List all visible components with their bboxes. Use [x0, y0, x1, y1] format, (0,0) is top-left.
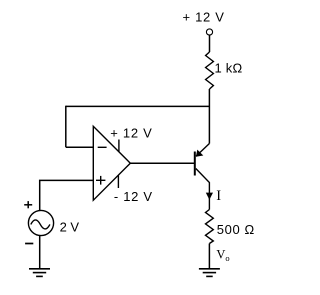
wire feedback left [65, 106, 67, 148]
minus sign of source [25, 243, 33, 245]
svg-text:Vo: Vo [216, 248, 229, 264]
pin +12V supply of op-amp [118, 140, 120, 153]
transistor Q1 collector lead [196, 169, 210, 210]
wire terminal to R1 [209, 35, 211, 52]
ground right [199, 269, 220, 277]
wire R2 to ground [208, 244, 210, 269]
transistor Q1 bar [194, 152, 196, 176]
op-amp U1 [93, 126, 130, 200]
minus input sign [98, 146, 107, 148]
transistor Q1 emitter lead [196, 144, 209, 157]
wire op-amp output to base [130, 162, 194, 164]
svg-text:2 V: 2 V [60, 220, 80, 235]
current arrow I [206, 193, 213, 200]
wire feedback to inverting input [66, 146, 94, 148]
wire source to non-inverting input [40, 180, 94, 210]
svg-text:+ 12 V: + 12 V [183, 10, 225, 25]
ground left [29, 269, 50, 277]
resistor R2 [206, 210, 214, 244]
wire source to ground [39, 236, 41, 269]
svg-text:+ 12 V: + 12 V [110, 126, 152, 141]
pin -12V supply of op-amp [117, 175, 119, 188]
wire R1 to collector bend [208, 89, 210, 144]
transistor Q1 emitter arrowhead [196, 150, 203, 157]
svg-text:500 Ω: 500 Ω [217, 222, 255, 237]
svg-text:I: I [216, 188, 221, 204]
source V1 circle [28, 210, 53, 235]
plus input sign [96, 176, 105, 185]
wire feedback top [66, 105, 210, 107]
svg-text:- 12 V: - 12 V [114, 189, 153, 204]
plus sign of source [24, 201, 32, 208]
source V1 sine wave [31, 220, 50, 229]
terminal +12V [206, 29, 212, 35]
resistor R1 [206, 52, 214, 89]
svg-text:1 kΩ: 1 kΩ [215, 61, 243, 76]
